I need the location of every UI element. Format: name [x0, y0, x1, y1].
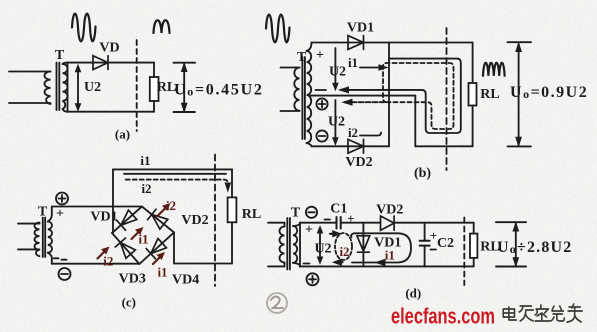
diode VD1 b: [348, 36, 364, 50]
circled plus d: [307, 273, 319, 285]
arrow U2 d: [319, 228, 321, 261]
dashed boundary line a: [136, 40, 138, 131]
dimension bar top b: [508, 41, 532, 43]
svg-text:RL: RL: [242, 207, 261, 222]
svg-text:i1: i1: [157, 265, 167, 280]
wire top d right segment: [394, 222, 474, 224]
dimension arrow line d: [515, 224, 517, 266]
wire VD1 vertical d: [362, 223, 364, 267]
waveform sine input icon circuit a: [72, 14, 96, 42]
wire secondary top jog b: [307, 43, 312, 52]
diode VD3 bridge: [115, 238, 135, 259]
svg-text:U2: U2: [328, 115, 345, 130]
watermark circled 2: [267, 293, 287, 313]
svg-text:(a): (a): [115, 127, 130, 142]
diode VD2 bridge: [148, 209, 169, 229]
svg-text:+: +: [347, 211, 354, 226]
svg-text:(b): (b): [414, 166, 431, 181]
resistor RL a: [153, 63, 155, 77]
transformer T4 core: [287, 218, 290, 270]
bridge edge VD4 wire: [139, 232, 174, 264]
wire secondary left vertical a: [67, 63, 69, 112]
minus sign secondary bottom d: [304, 263, 310, 265]
svg-text:i1: i1: [140, 153, 150, 168]
svg-text:RL: RL: [480, 87, 499, 102]
current arrow i1 middle c: [132, 230, 142, 240]
svg-text:elecfans.com: elecfans.com: [391, 304, 495, 329]
transformer T3 primary winding: [35, 223, 40, 257]
svg-text:i2: i2: [141, 181, 151, 196]
svg-text:VD1: VD1: [347, 21, 374, 36]
dimension bar bottom b: [508, 145, 532, 147]
wire below resistor b: [472, 106, 474, 147]
wire bottom a: [68, 111, 155, 113]
svg-text:i2: i2: [166, 198, 176, 213]
transformer T2 primary lead top: [281, 67, 300, 69]
wire return vertical b: [414, 96, 416, 147]
svg-text:VD3: VD3: [119, 272, 146, 287]
circled plus c: [56, 193, 68, 205]
capacitor C2 wire top: [424, 223, 426, 241]
wire center tap b: [311, 95, 416, 97]
transformer T4 primary lead bottom: [268, 265, 285, 267]
diode VD1 bridge: [117, 210, 138, 230]
svg-text:+: +: [305, 223, 313, 238]
wire secondary bottom jog b: [307, 143, 312, 146]
transformer T4 secondary winding: [293, 226, 297, 263]
capacitor C2: [420, 241, 430, 246]
wire bottom right b: [415, 145, 472, 147]
arrowhead i2 return b: [343, 99, 352, 105]
transformer T1 primary lead bottom: [9, 102, 51, 104]
diode VD4 bridge: [146, 238, 167, 258]
svg-text:VD: VD: [99, 41, 119, 56]
svg-text:U2: U2: [314, 242, 331, 257]
wire bottom left b with diode: [312, 145, 390, 147]
dimension bar bottom a: [174, 111, 196, 113]
minus sign C2: [431, 249, 437, 251]
svg-text:+: +: [56, 207, 64, 222]
wire left vertical c: [112, 169, 114, 233]
svg-text:i1: i1: [138, 232, 148, 247]
wire transformer top to bridge c: [52, 206, 142, 208]
wire top b: [312, 42, 473, 44]
transformer T1 primary winding: [45, 72, 51, 104]
svg-text:i2: i2: [339, 244, 349, 259]
bridge edge VD2 wire: [142, 207, 174, 233]
wire bottom c: [52, 263, 140, 265]
wire top c: [113, 168, 232, 170]
wire top d left segment: [300, 222, 336, 224]
transformer T2 core: [302, 57, 305, 139]
svg-text:Uo=0.45U2: Uo=0.45U2: [174, 82, 264, 99]
transformer T3 secondary winding: [48, 222, 52, 253]
circled minus c: [59, 268, 71, 280]
transformer T2 secondary winding with center tap: [307, 51, 312, 143]
current arrow i2 near VD2: [158, 206, 169, 217]
dashed boundary line b: [446, 28, 448, 170]
arrowhead i1 return b: [340, 87, 349, 93]
pointer line i2 b: [360, 133, 381, 136]
transformer T3 primary lead top: [18, 223, 40, 225]
logo chinese characters dianzi fashaoyou: [503, 304, 582, 322]
wire bottom d: [300, 265, 474, 267]
circled minus bottom winding b: [316, 130, 327, 141]
svg-text:U2: U2: [84, 80, 101, 95]
current loop i1 d: [351, 233, 411, 262]
diode VD1 d: [357, 236, 370, 252]
arrow U2 a: [77, 67, 79, 109]
transformer T4 primary winding: [280, 227, 285, 263]
wire secondary top jog a: [63, 63, 68, 64]
transformer T2 primary winding: [294, 68, 299, 111]
minus sign C1: [325, 219, 331, 221]
wire cathode join vertical b: [388, 43, 390, 147]
diode VD2 b: [348, 139, 364, 153]
svg-text:T: T: [55, 48, 65, 63]
svg-text:i1: i1: [385, 248, 395, 263]
arrow U2 top winding b: [334, 48, 336, 87]
svg-text:T: T: [38, 205, 48, 220]
transformer T4 primary lead top: [268, 222, 285, 224]
transformer T1 core: [57, 63, 60, 111]
circled minus d: [306, 207, 317, 218]
resistor RL c: [228, 197, 237, 222]
dashed boundary line c: [214, 155, 216, 287]
wire top d middle segment: [341, 222, 381, 224]
dimension arrow line b: [518, 44, 520, 146]
bridge edge VD3 wire: [112, 233, 139, 264]
dimension bar top d: [496, 221, 526, 223]
wire top a: [68, 62, 155, 64]
svg-text:i2: i2: [348, 125, 358, 140]
wire right vertical top c: [231, 169, 233, 197]
svg-text:C2: C2: [437, 236, 454, 251]
capacitor C1: [337, 217, 341, 229]
diode VD2 d: [381, 216, 395, 230]
bridge edge VD1 wire: [112, 207, 142, 234]
wire secondary left vertical d: [299, 223, 301, 267]
wire bridge right corner step c: [174, 232, 232, 263]
svg-text:U2: U2: [329, 65, 346, 80]
svg-text:i1: i1: [348, 55, 358, 70]
resistor RL b: [469, 83, 477, 106]
circled plus center tap b: [316, 98, 327, 109]
dimension bar bottom d: [496, 266, 526, 268]
waveform full-wave output icon b: [483, 63, 505, 76]
waveform sine input icon circuit b: [266, 15, 290, 43]
wire secondary jogs d: [293, 223, 300, 267]
dashed boundary line d: [463, 218, 465, 286]
wire primary jogs d: [284, 223, 286, 267]
minus sign c: [54, 258, 67, 259]
svg-text:VD2: VD2: [181, 213, 208, 228]
svg-text:VD2: VD2: [345, 155, 372, 170]
svg-text:VD2: VD2: [376, 203, 403, 218]
wire right vertical bottom c: [231, 222, 233, 263]
svg-text:T: T: [291, 206, 301, 221]
wire secondary top jog c: [48, 207, 52, 222]
dashed current path i2 top c: [126, 180, 228, 186]
waveform half-wave output icon circuit a: [154, 20, 170, 33]
arrow i2 top d: [330, 233, 337, 235]
svg-text:T: T: [297, 50, 307, 65]
svg-text:(c): (c): [122, 295, 136, 310]
arrow i2 bottom d: [337, 261, 343, 263]
dimension arrow line a: [183, 64, 185, 111]
svg-text:VD4: VD4: [172, 273, 199, 288]
arrow U2 bottom winding b: [334, 100, 336, 142]
transformer T3 core: [43, 218, 45, 258]
solid current path i1 below top wire c: [124, 173, 226, 175]
current loop i2 dashed b: [345, 63, 454, 129]
svg-text:+: +: [316, 48, 324, 63]
resistor RL d: [473, 223, 475, 234]
transformer T3 primary lead bottom: [18, 248, 40, 250]
svg-text:i2: i2: [103, 254, 113, 269]
current loop i2 dashed d: [335, 233, 352, 260]
transformer T1 primary lead top: [9, 71, 51, 73]
minus sign top winding b: [316, 89, 327, 91]
pointer line i1 b: [360, 67, 385, 69]
diode VD: [93, 56, 108, 70]
svg-text:Uo=0.9U2: Uo=0.9U2: [510, 84, 588, 101]
svg-text:Uo÷2.8U2: Uo÷2.8U2: [497, 239, 573, 256]
current arrow i1 near VD4: [153, 255, 163, 265]
svg-text:C1: C1: [330, 202, 347, 217]
arrowhead i1 loop d: [376, 260, 385, 266]
capacitor C2 wire bottom: [424, 246, 426, 267]
current loop i1 solid b: [341, 59, 461, 133]
arrowhead i2 path down c: [225, 183, 230, 191]
dimension bar top a: [174, 62, 196, 64]
transformer T2 primary lead bottom: [281, 110, 300, 112]
svg-text:VD1: VD1: [90, 210, 117, 225]
wire right vertical b: [472, 43, 474, 84]
svg-text:(d): (d): [405, 286, 421, 301]
wire secondary bottom jog a: [63, 109, 68, 112]
wire secondary bottom jog c: [48, 253, 52, 264]
current arrow i2 near VD3: [98, 249, 108, 259]
transformer T1 secondary winding: [63, 64, 68, 109]
